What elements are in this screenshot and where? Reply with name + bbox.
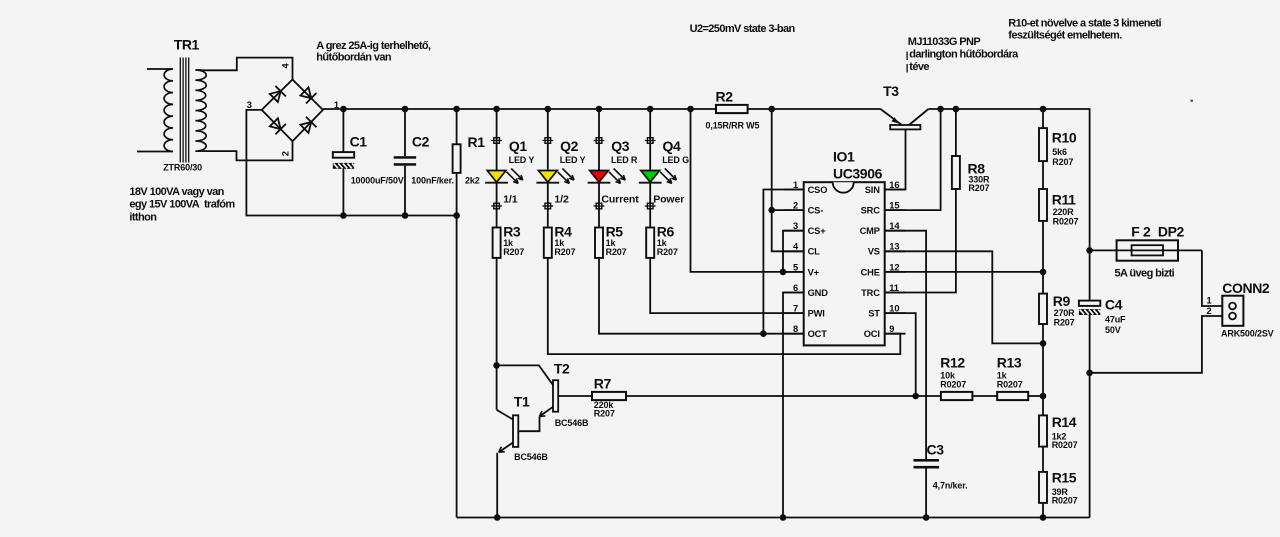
svg-text:16: 16 bbox=[889, 180, 899, 190]
wire main positive bus bbox=[323, 108, 881, 110]
svg-text:CHE: CHE bbox=[861, 267, 880, 277]
svg-text:C2: C2 bbox=[412, 134, 430, 150]
resistor R7 bbox=[592, 375, 941, 418]
transformer TR1 bbox=[137, 37, 206, 173]
capacitor C3 bbox=[914, 442, 968, 521]
resistor R15 bbox=[1039, 470, 1078, 521]
wire fuse to CONN2 pin 1 bbox=[1202, 250, 1222, 306]
svg-text:CSO: CSO bbox=[808, 185, 828, 195]
LED Q3 bbox=[588, 106, 640, 228]
wire CONN2 pin 2 to ground bbox=[1090, 316, 1223, 373]
svg-text:CS-: CS- bbox=[808, 206, 824, 216]
wire ground rail bbox=[457, 517, 1090, 519]
svg-text:10000uF/50V: 10000uF/50V bbox=[351, 176, 404, 186]
svg-text:1/2: 1/2 bbox=[554, 194, 569, 206]
LED Q4 bbox=[639, 106, 689, 228]
svg-text:TRC: TRC bbox=[861, 288, 880, 298]
diode top-left bbox=[269, 86, 286, 103]
svg-text:BC546B: BC546B bbox=[555, 418, 589, 428]
wire CHE (pin 12) bbox=[885, 269, 1047, 276]
svg-text:LED R: LED R bbox=[611, 155, 638, 165]
svg-text:egy 15V 100VA trafóm: egy 15V 100VA trafóm bbox=[129, 199, 235, 211]
svg-text:R10-et növelve a state 3 kimen: R10-et növelve a state 3 kimeneti bbox=[1008, 18, 1161, 30]
svg-text:50V: 50V bbox=[1105, 325, 1121, 335]
svg-text:R207: R207 bbox=[594, 409, 615, 419]
svg-text:SIN: SIN bbox=[865, 185, 880, 195]
capacitor C1 bbox=[333, 106, 404, 219]
svg-text:LED G: LED G bbox=[662, 155, 689, 165]
svg-text:R207: R207 bbox=[968, 183, 989, 193]
svg-text:DP2: DP2 bbox=[1158, 224, 1185, 240]
svg-text:V+: V+ bbox=[808, 267, 820, 277]
svg-text:R207: R207 bbox=[606, 247, 627, 257]
wire R3 to darlington bbox=[493, 258, 500, 410]
svg-text:GND: GND bbox=[808, 288, 829, 298]
transistor T2 bbox=[497, 360, 592, 428]
svg-text:Q4: Q4 bbox=[663, 138, 681, 154]
svg-text:5A üveg bizti: 5A üveg bizti bbox=[1115, 268, 1175, 280]
LED Q1 bbox=[485, 106, 534, 228]
diode top-right bbox=[299, 86, 316, 103]
LED Q2 bbox=[536, 106, 585, 228]
svg-text:18V 100VA vagy van: 18V 100VA vagy van bbox=[129, 186, 224, 198]
resistor R1 bbox=[453, 106, 486, 219]
note: T3 type text bbox=[907, 36, 1019, 73]
svg-text:R1: R1 bbox=[468, 134, 486, 150]
wire ST (pin 10) bbox=[885, 313, 919, 399]
svg-text:BC546B: BC546B bbox=[514, 452, 548, 462]
svg-text:A grez 25A-ig terhelhető,: A grez 25A-ig terhelhető, bbox=[316, 40, 431, 52]
svg-text:R7: R7 bbox=[594, 375, 612, 391]
svg-text:C4: C4 bbox=[1105, 296, 1123, 312]
svg-text:R9: R9 bbox=[1053, 293, 1071, 309]
svg-text:2: 2 bbox=[1206, 306, 1211, 316]
wire secondary top to bridge pin 4 bbox=[202, 58, 293, 80]
note: R10 text bbox=[1008, 18, 1161, 42]
resistor R10 bbox=[1039, 106, 1077, 189]
bridge rectifier diamond bbox=[262, 80, 323, 142]
svg-text:5: 5 bbox=[793, 262, 798, 272]
svg-text:UC3906: UC3906 bbox=[833, 166, 883, 182]
svg-text:ZTR60/30: ZTR60/30 bbox=[163, 162, 202, 172]
svg-text:R207: R207 bbox=[554, 247, 575, 257]
svg-text:CL: CL bbox=[808, 247, 821, 257]
resistor R8 TRC to bus bbox=[885, 106, 990, 293]
svg-text:Q3: Q3 bbox=[611, 138, 629, 154]
svg-text:100nF/ker.: 100nF/ker. bbox=[411, 176, 454, 186]
svg-text:feszültségét emelhetem.: feszültségét emelhetem. bbox=[1008, 29, 1122, 41]
svg-text:10: 10 bbox=[889, 304, 899, 314]
svg-text:2k2: 2k2 bbox=[465, 176, 480, 186]
svg-text:3: 3 bbox=[793, 221, 798, 231]
svg-text:5k6: 5k6 bbox=[1052, 147, 1067, 157]
diode bottom-right bbox=[299, 117, 316, 134]
svg-text:Q2: Q2 bbox=[560, 138, 578, 154]
wire SRC (pin 15) to bus bbox=[885, 106, 944, 210]
svg-text:12: 12 bbox=[889, 262, 899, 272]
svg-text:CMP: CMP bbox=[860, 226, 880, 236]
svg-text:SRC: SRC bbox=[861, 206, 881, 216]
svg-text:R2: R2 bbox=[716, 88, 734, 104]
svg-text:OCT: OCT bbox=[808, 329, 828, 339]
svg-text:darlington hűtőbordára: darlington hűtőbordára bbox=[909, 48, 1019, 60]
resistor R13 bbox=[972, 355, 1046, 400]
svg-text:1/1: 1/1 bbox=[503, 194, 518, 206]
resistor R2 bbox=[706, 88, 760, 130]
wire OCT (pin 8) to R5 bbox=[599, 258, 804, 334]
wire CS- / CL to bus bbox=[768, 106, 803, 252]
svg-text:R207: R207 bbox=[503, 247, 524, 257]
svg-text:13: 13 bbox=[889, 242, 899, 252]
svg-text:LED Y: LED Y bbox=[560, 155, 586, 165]
svg-text:15: 15 bbox=[889, 201, 899, 211]
svg-text:R0207: R0207 bbox=[997, 379, 1023, 389]
svg-text:3: 3 bbox=[247, 100, 252, 110]
svg-text:1: 1 bbox=[793, 180, 798, 190]
wire secondary bottom to bridge pin 2 bbox=[202, 141, 293, 160]
wire CS+ (pin 3) to V+ bbox=[780, 231, 804, 276]
bridge pin labels bbox=[247, 63, 339, 157]
IC pin stubs and numbers right bbox=[860, 180, 906, 339]
op-amp U1: IC IO1 UC3906 bbox=[804, 149, 885, 346]
svg-text:T3: T3 bbox=[883, 83, 899, 99]
resistor R14 bbox=[1039, 414, 1078, 472]
wire V+ (pin 5) to bus bbox=[687, 106, 804, 272]
transistor T1 bbox=[494, 393, 548, 521]
note: bridge text bbox=[316, 40, 431, 64]
svg-text:LED Y: LED Y bbox=[509, 155, 535, 165]
svg-text:9: 9 bbox=[889, 324, 894, 334]
svg-text:TR1: TR1 bbox=[174, 37, 200, 53]
svg-text:R207: R207 bbox=[1054, 317, 1075, 327]
svg-text:itthon: itthon bbox=[129, 211, 157, 223]
wire GND (pin 6) to ground rail bbox=[780, 293, 804, 521]
svg-text:OCI: OCI bbox=[864, 329, 880, 339]
resistor R12 bbox=[940, 355, 972, 400]
svg-text:R13: R13 bbox=[997, 355, 1022, 371]
resistor R6 bbox=[646, 224, 678, 258]
svg-text:6: 6 bbox=[793, 283, 798, 293]
svg-text:R15: R15 bbox=[1052, 470, 1077, 486]
svg-text:Current: Current bbox=[601, 194, 639, 206]
svg-text:hűtőbordán van: hűtőbordán van bbox=[316, 52, 392, 64]
svg-text:8: 8 bbox=[793, 324, 798, 334]
wire bus right segment bbox=[928, 109, 1089, 250]
capacitor C2 bbox=[394, 106, 454, 219]
svg-text:1: 1 bbox=[1206, 295, 1211, 305]
svg-text:R0207: R0207 bbox=[1053, 216, 1079, 226]
svg-text:T1: T1 bbox=[514, 393, 530, 409]
svg-text:MJ11033G PNP: MJ11033G PNP bbox=[908, 36, 981, 48]
svg-text:CONN2: CONN2 bbox=[1222, 280, 1270, 296]
resistor R5 bbox=[595, 224, 627, 258]
resistor R9 bbox=[1039, 293, 1075, 415]
svg-text:Q1: Q1 bbox=[509, 138, 527, 154]
svg-text:ARK500/2SV: ARK500/2SV bbox=[1221, 328, 1274, 338]
svg-text:7: 7 bbox=[793, 304, 798, 314]
svg-text:ST: ST bbox=[868, 309, 880, 319]
connector CONN2 bbox=[1206, 280, 1273, 338]
svg-text:R0207: R0207 bbox=[1052, 496, 1078, 506]
svg-text:14: 14 bbox=[889, 221, 900, 231]
svg-text:4,7n/ker.: 4,7n/ker. bbox=[933, 481, 968, 491]
transistor T3 bbox=[881, 83, 929, 190]
svg-text:PWI: PWI bbox=[808, 309, 825, 319]
svg-text:0,15R/RR W5: 0,15R/RR W5 bbox=[706, 120, 760, 130]
svg-text:2: 2 bbox=[281, 151, 291, 156]
wire CMP (pin 14) to C3 bbox=[885, 231, 926, 459]
svg-text:11: 11 bbox=[889, 283, 899, 293]
svg-text:47uF: 47uF bbox=[1105, 314, 1126, 324]
svg-text:R10: R10 bbox=[1052, 130, 1077, 146]
svg-text:R12: R12 bbox=[940, 355, 965, 371]
stray dot bbox=[1191, 100, 1193, 102]
svg-text:IO1: IO1 bbox=[833, 149, 855, 165]
resistor R4 bbox=[544, 224, 576, 258]
note: transformer text bbox=[129, 186, 235, 223]
svg-text:CS+: CS+ bbox=[808, 226, 827, 236]
diode bottom-left bbox=[269, 117, 286, 134]
svg-text:VS: VS bbox=[868, 247, 880, 257]
svg-text:R0207: R0207 bbox=[940, 379, 966, 389]
svg-text:R207: R207 bbox=[657, 247, 678, 257]
svg-text:R14: R14 bbox=[1052, 414, 1077, 430]
svg-text:R11: R11 bbox=[1052, 192, 1076, 208]
svg-text:T2: T2 bbox=[554, 360, 570, 376]
svg-text:téve: téve bbox=[909, 61, 929, 73]
svg-text:Power: Power bbox=[653, 194, 684, 206]
wire bridge pin 3 to negative rail bbox=[246, 110, 456, 518]
IC pin stubs and numbers left bbox=[784, 180, 829, 339]
wire VS (pin 13) bbox=[885, 251, 1047, 346]
svg-text:R207: R207 bbox=[1052, 157, 1073, 167]
svg-text:F 2: F 2 bbox=[1131, 224, 1151, 240]
svg-text:2: 2 bbox=[793, 201, 798, 211]
wire PWI (pin 7) to R6 bbox=[650, 258, 804, 313]
capacitor C4 bbox=[1079, 247, 1126, 517]
svg-text:C1: C1 bbox=[350, 134, 368, 150]
svg-text:R0207: R0207 bbox=[1052, 440, 1078, 450]
svg-text:C3: C3 bbox=[927, 442, 945, 458]
resistor R3 bbox=[493, 224, 525, 258]
wire OCI (pin 9) to R4 bbox=[548, 258, 901, 354]
wire CSO (pin 1) to OCT row bbox=[760, 190, 804, 338]
svg-text:U2=250mV state 3-ban: U2=250mV state 3-ban bbox=[690, 23, 796, 35]
fuse F2 bbox=[1090, 224, 1202, 280]
resistor R11 bbox=[1039, 189, 1079, 294]
